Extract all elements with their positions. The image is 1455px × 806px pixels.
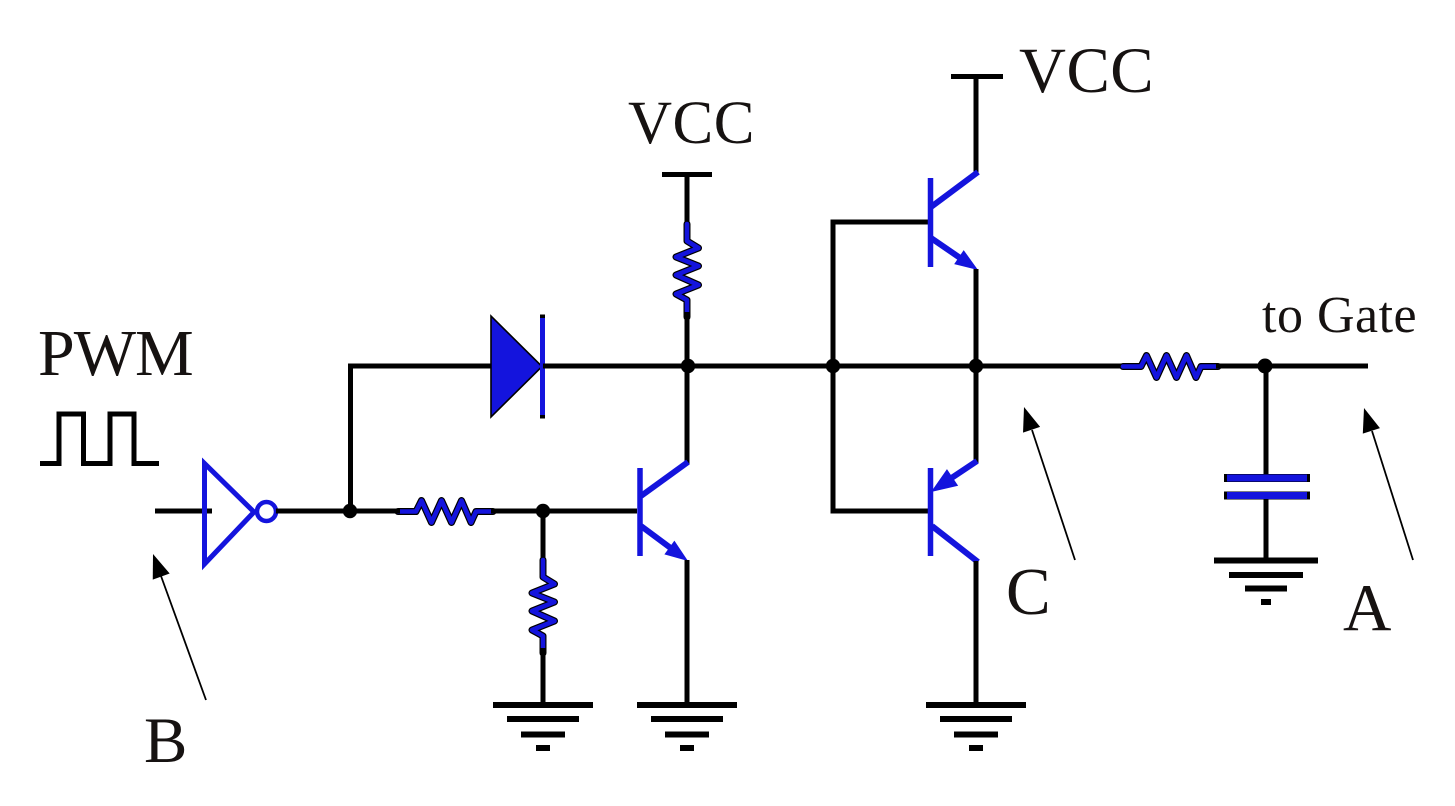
wire input to inverter <box>155 509 212 514</box>
wire riser for totem-pole bases <box>833 222 930 511</box>
svg-text:C: C <box>1006 555 1051 629</box>
wire inverter output to node <box>276 509 352 514</box>
resistor R2 pull-up from VCC <box>676 224 699 317</box>
resistor R3 pull-down <box>532 560 555 653</box>
node at diode cathode / VCC resistor <box>681 359 695 373</box>
wire resistor R1 to base node <box>491 509 545 514</box>
svg-text:B: B <box>144 705 187 777</box>
wire resistor R3 to ground <box>541 648 546 706</box>
annotation arrow B <box>145 551 206 700</box>
ground under Q3 <box>637 705 737 748</box>
wire top rail to diode anode <box>348 364 494 369</box>
wire capacitor to ground <box>1264 499 1269 562</box>
node at inverter output <box>343 504 357 518</box>
node at Q3 base / R3 top <box>536 504 550 518</box>
wire base node to Q3 <box>543 509 637 514</box>
wire node to resistor R1 <box>350 509 400 514</box>
svg-text:PWM: PWM <box>38 317 193 390</box>
wire gate resistor to output terminal <box>1216 364 1368 369</box>
svg-text:VCC: VCC <box>1019 35 1154 107</box>
ground under R3 <box>493 705 593 748</box>
transistor Q1 npn (upper totem) <box>931 74 983 368</box>
annotation arrow A <box>1355 405 1413 560</box>
transistor Q3 npn <box>640 364 693 706</box>
svg-text:VCC: VCC <box>628 90 755 157</box>
transistor Q2 pnp (lower totem) <box>925 366 978 706</box>
diode D1 <box>491 315 543 419</box>
wire totem node to output node <box>833 364 978 369</box>
wire node down to capacitor <box>1264 366 1269 475</box>
wire rail node to totem-pole node <box>688 364 835 369</box>
wire diode cathode to VCC node <box>543 364 690 369</box>
svg-text:A: A <box>1343 571 1391 645</box>
capacitor C1 <box>1224 478 1310 496</box>
wire riser from node up to top rail <box>348 364 353 512</box>
node at totem-pole bases riser <box>826 359 840 373</box>
VCC rail terminal (left) <box>662 172 712 177</box>
ground under Q2 <box>926 705 1026 748</box>
wire node down to resistor R3 <box>541 511 546 566</box>
node at totem-pole output <box>969 359 983 373</box>
annotation arrow C <box>1015 404 1075 560</box>
VCC rail terminal (right) <box>951 74 1003 79</box>
wire resistor to node <box>685 312 690 368</box>
resistor R1 base series <box>398 501 493 523</box>
svg-text:to Gate: to Gate <box>1262 287 1417 344</box>
wire output node to gate resistor <box>976 364 1126 369</box>
node at capacitor tap <box>1258 359 1273 374</box>
wire VCC bar down to resistor <box>685 174 690 230</box>
PWM square-wave symbol <box>40 414 159 464</box>
ground under capacitor <box>1214 561 1318 603</box>
inverter U1 <box>205 464 277 565</box>
resistor R4 gate series <box>1123 356 1218 378</box>
